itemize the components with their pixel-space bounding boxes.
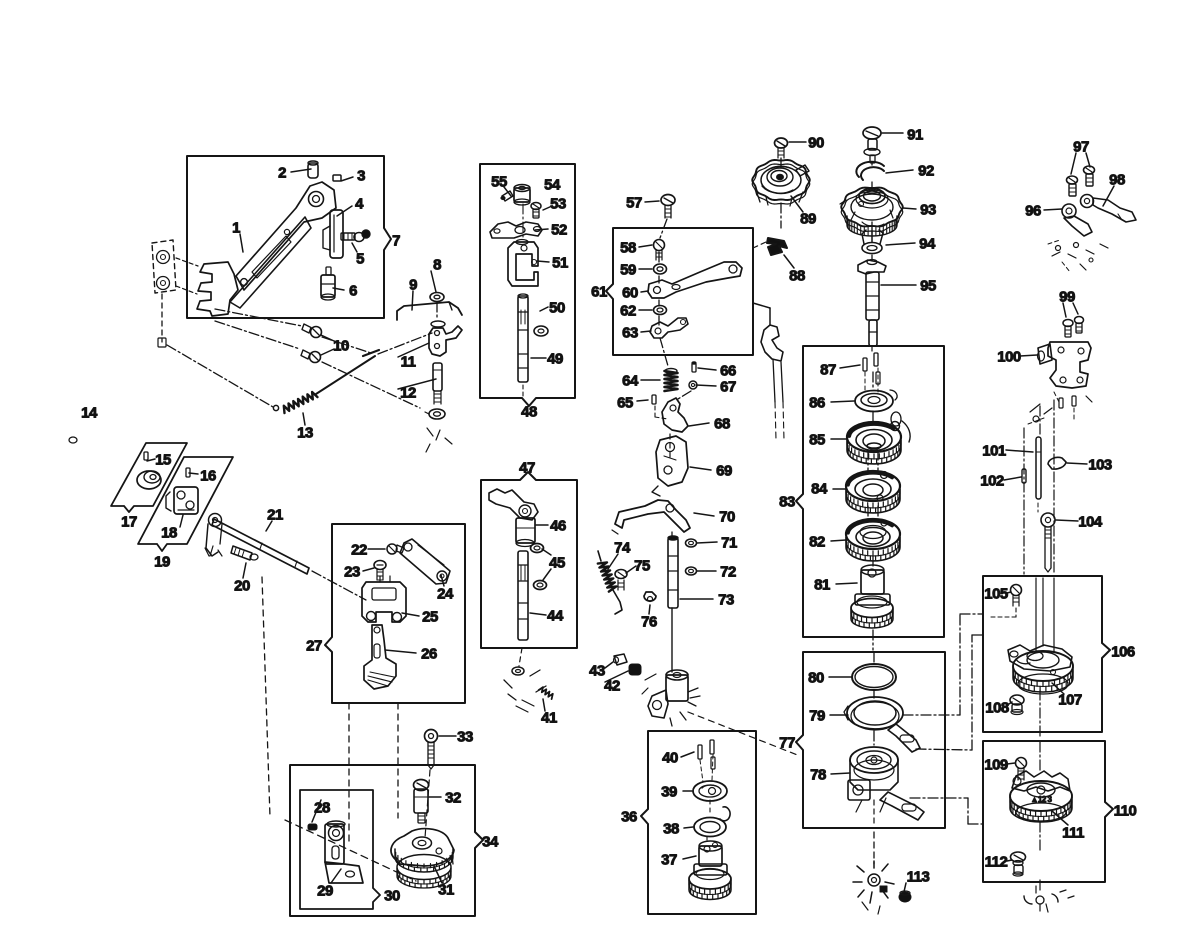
leader line 98 [1007,860,1012,861]
leader line 47 [639,268,652,270]
debris 96 [1048,240,1060,244]
box group 36 [641,731,756,914]
screw 104 [1041,513,1055,527]
leader line 86 [1063,303,1066,317]
pin 28 [308,824,317,830]
bracket 100 [1048,342,1091,388]
box group 61 [606,228,753,355]
cone 81 [861,570,884,594]
svg-text:50: 50 [549,300,565,317]
svg-text:13: 13 [297,425,313,442]
axis 77 [873,652,875,662]
svg-text:78: 78 [810,767,826,784]
leader line 63 [649,605,650,614]
box group 83 [796,346,944,637]
gear 85 [847,422,901,452]
leader line 65 [791,196,803,212]
axis 70-73 [669,434,671,460]
part 26 foot [364,625,396,689]
part 6 cylinder [321,275,335,297]
svg-text:44: 44 [547,608,564,625]
svg-text:29: 29 [317,883,333,900]
spring 13 [273,405,278,410]
leader line 69 [886,243,915,245]
axis 95 [871,162,873,165]
cam 39 [693,781,727,801]
washer 62 [654,306,667,315]
leader line 43 [543,206,552,210]
leader line 4 [333,288,344,290]
oring 80 [852,664,896,690]
leader line 51 [641,379,660,381]
pin 66 [692,363,696,372]
bracket 94 [862,243,882,254]
gear 82 [846,519,900,549]
svg-text:22: 22 [351,542,367,559]
leader line 70 [881,284,916,286]
nut below 12 [429,409,445,419]
svg-text:100: 100 [997,349,1021,366]
box group 106 [983,576,1110,732]
svg-text:8: 8 [433,257,441,274]
shaft 73 [668,538,678,608]
leader line 7 [412,291,413,310]
svg-text:96: 96 [1025,203,1041,220]
dashed verticals to 34 [348,703,350,845]
bolt 91 [863,127,881,139]
svg-text:16: 16 [200,468,216,485]
leader line 91 [1067,463,1087,464]
leader line 96 [1007,763,1015,764]
svg-text:43: 43 [589,663,605,680]
svg-text:10: 10 [333,338,349,355]
dash 67-68 [678,391,691,399]
screw 108 [1010,695,1024,705]
svg-text:82: 82 [809,534,825,551]
below 47 bits [519,648,522,666]
svg-text:11: 11 [401,354,416,371]
axis 48 [522,204,524,240]
svg-text:72: 72 [720,564,736,581]
svg-text:49: 49 [547,351,563,368]
svg-text:91: 91 [907,127,923,144]
bracket 25 [362,582,406,622]
spring 74 [598,551,601,561]
assembly 41-42 [666,670,688,680]
svg-text:4: 4 [355,196,364,213]
svg-text:94: 94 [919,236,936,253]
screw 57 [661,195,675,206]
leader line 40 [540,307,548,311]
screw 10 a [311,327,322,338]
leader line 26 [429,796,441,798]
svg-text:51: 51 [552,255,568,272]
nut 67 [689,381,697,389]
screw 23 [374,561,386,570]
dash 65 [654,406,656,417]
ring 38 [694,818,726,837]
part 4 plate [330,210,343,258]
leader line 52 [637,400,648,401]
dashed drop line [161,294,163,342]
screws 97 [1067,176,1078,184]
part 18 block [174,487,198,514]
part 12 rod [433,363,442,391]
part 15 bushing [137,471,161,489]
screw 90 [775,138,788,148]
link 24 [400,539,450,584]
part 5 bolt [354,233,364,242]
leader line 1 [341,177,353,181]
svg-text:62: 62 [620,303,636,320]
leader line 79 [830,714,848,716]
box group 7 [187,156,391,318]
part 42 dark [629,664,641,675]
leader line 45 [645,201,659,202]
spring 64 [665,371,678,391]
pin 102 [1022,469,1026,483]
svg-text:65: 65 [617,395,633,412]
star 113 [868,874,880,886]
lever 60 [648,262,742,298]
svg-text:79: 79 [809,708,825,725]
connector A2 [916,749,972,750]
clip 88 [767,238,787,255]
axis 33 [425,770,430,838]
leader line 39 [531,357,546,359]
bracket 29 [325,824,344,864]
svg-text:93: 93 [920,202,936,219]
pin 65 [652,395,656,404]
part 20 stub [231,546,252,560]
axis 57 [660,219,667,238]
svg-text:88: 88 [789,268,805,285]
line 73 to 42 [671,608,673,672]
leader line 37 [542,549,551,555]
part 11 clamp [429,326,462,356]
svg-text:40: 40 [662,750,678,767]
svg-text:47: 47 [519,460,535,477]
hook 68 [662,398,688,432]
leader line 74 [831,438,846,440]
svg-text:73: 73 [718,592,734,609]
verticals right [1023,428,1025,574]
nut 59 [654,264,667,274]
svg-text:68: 68 [714,416,730,433]
svg-text:63: 63 [622,325,638,342]
dash-dot L4 [167,345,273,407]
leader line 56 [690,467,711,470]
lever 52 [490,222,542,238]
svg-text:20: 20 [234,578,250,595]
leader line 2 [337,206,352,216]
leader line 23 [312,800,321,822]
gear 84 [846,471,900,501]
box group 77 [796,652,945,828]
leader line 81 [903,883,906,896]
svg-text:112: 112 [985,854,1008,871]
ring 79 [847,697,903,729]
leader line 24 [331,869,341,883]
bracket 51 [508,242,538,286]
leader line 31 [683,856,696,859]
leader line 75 [833,488,846,490]
gear 93 [841,188,903,227]
bracket at rod [209,514,222,527]
leader line 76 [831,540,846,541]
svg-text:54: 54 [544,177,561,194]
leader line 11 [398,379,436,389]
screw 75 [615,570,627,579]
svg-text:90: 90 [808,135,824,152]
gear 31 [391,829,454,866]
svg-text:23: 23 [344,564,360,581]
svg-text:64: 64 [622,373,639,390]
leader line 35 [530,613,546,615]
svg-text:19: 19 [154,554,170,571]
leader line 64 [789,141,806,143]
clip 92 [856,162,884,180]
s-bracket right of 61 [753,303,770,308]
svg-text:17: 17 [121,514,137,531]
svg-text:67: 67 [720,379,736,396]
dash-dot L2 [215,321,300,349]
leader line 9 [321,349,334,355]
svg-text:76: 76 [641,614,657,631]
dashed vert from 21 [262,577,270,817]
leader line 10 [398,343,429,357]
leader line 30 [684,827,693,828]
leader line 41 [537,261,549,262]
rod 21 [212,519,309,574]
svg-text:7: 7 [392,233,400,250]
needle 101 [1036,437,1041,499]
axis 36 [709,800,711,816]
svg-text:46: 46 [550,518,566,535]
part 16 pin [186,468,190,477]
dash to 77 [688,712,800,756]
svg-text:26: 26 [421,646,437,663]
leader line 90 [1004,477,1021,480]
diag dash 34 [285,820,416,881]
dash-dot 21 axis [312,571,366,600]
svg-text:2: 2 [278,165,286,182]
screw 10 b [310,352,321,363]
leader line 92 [1056,520,1078,521]
svg-text:38: 38 [663,821,679,838]
leader line 19 [363,568,374,571]
leader line 71 [784,255,794,268]
lever 63 [650,318,688,338]
connector B1 [910,797,968,799]
axis 83 [872,372,874,390]
leader line 95 [1052,683,1064,694]
screw 53 [531,203,541,210]
svg-text:25: 25 [422,609,438,626]
leader line 87 [1073,303,1078,314]
nut 71 [686,539,697,547]
leader line 27 [439,735,456,737]
svg-text:110: 110 [1114,803,1137,820]
leader line 94 [1009,702,1012,704]
leader line 50 [641,331,651,332]
svg-text:113: 113 [907,869,930,886]
svg-text:106: 106 [1111,644,1135,661]
leader line 28 [681,752,694,757]
svg-text:41: 41 [541,710,557,727]
clip 76 [644,592,656,601]
leader line 21 [402,613,419,616]
svg-text:53: 53 [550,196,566,213]
leader line 42 [535,229,548,230]
svg-text:37: 37 [661,852,677,869]
lever 46 [489,489,538,520]
leader line 67 [886,170,913,173]
svg-text:107: 107 [1058,692,1082,709]
screw 22 [387,544,397,554]
shaft 44 [518,551,528,640]
leader line 58 [697,542,717,543]
svg-text:1: 1 [232,220,240,237]
ring 86 [855,391,893,412]
leader line 53 [698,368,716,370]
leader line 73 [831,401,854,402]
leader line 93 [1007,592,1011,593]
leader line 60 [680,598,713,600]
box group 34 [290,765,483,916]
svg-text:102: 102 [980,473,1004,490]
leader line 3 [352,243,357,252]
leader line 59 [697,570,716,572]
svg-text:15: 15 [155,452,171,469]
leader line 12 [303,413,305,425]
verticals 106 [1035,578,1037,650]
leader line 0 [291,169,311,172]
svg-text:69: 69 [716,463,732,480]
arm 70 [615,500,690,532]
leader line 61 [608,554,618,569]
svg-text:80: 80 [808,670,824,687]
part 43 [614,654,627,665]
leader line 20 [441,575,444,586]
washer 8 [430,293,444,302]
assembly 78 [850,747,898,773]
svg-text:60: 60 [622,285,638,302]
svg-text:57: 57 [626,195,642,212]
lever 98 [1081,195,1094,208]
leader line 66 [882,132,903,134]
leader line 8 [321,335,334,341]
tick marks 19 [205,546,222,556]
rings 45 [531,544,544,553]
leader line 32 [543,699,545,711]
svg-text:59: 59 [620,262,636,279]
parallelogram 17 [111,443,187,512]
screw 112 [1011,852,1026,862]
leader line 77 [836,583,857,584]
leader line 89 [1006,450,1033,452]
svg-text:87: 87 [820,362,836,379]
leader line 6 [431,271,436,292]
parallelogram 19 [138,457,233,551]
leader line 80 [831,773,850,774]
nut 72 [686,567,697,575]
lever 96 [1062,204,1076,218]
leader line 84 [1086,153,1090,167]
nut 50 [534,326,548,336]
svg-text:109: 109 [984,757,1008,774]
axis 89 [780,158,782,168]
leader line 55 [689,423,709,426]
svg-text:111: 111 [1062,825,1084,842]
svg-text:101: 101 [982,443,1006,460]
svg-text:84: 84 [811,481,828,498]
svg-text:71: 71 [721,535,737,552]
svg-text:28: 28 [314,800,330,817]
svg-text:33: 33 [457,729,473,746]
leader line 83 [1071,153,1076,174]
svg-text:21: 21 [267,507,283,524]
svg-text:14: 14 [81,405,98,422]
screws 99 [1063,320,1073,327]
svg-text:89: 89 [800,211,816,228]
screw 109 [1016,758,1027,769]
leader line 54 [696,385,716,386]
leader line 97 [1052,811,1068,825]
svg-text:85: 85 [809,432,825,449]
svg-text:81: 81 [814,577,830,594]
leader line 36 [543,569,551,580]
debris under 12 [426,428,452,452]
leader line 22 [385,650,416,653]
dash 105 [1015,608,1017,617]
leader line 34 [605,662,613,668]
box group 110 [983,741,1113,882]
svg-text:86: 86 [809,395,825,412]
gear 111 [1012,771,1070,791]
box group 48 [480,164,575,406]
pins 87 [863,358,867,371]
leader line 25 [434,866,442,883]
hook 103 [1048,457,1066,469]
bolt 113 [899,892,911,902]
axis in 61 [658,252,660,264]
part 15 pin [144,452,148,460]
svg-text:104: 104 [1078,514,1103,531]
svg-text:61: 61 [591,284,607,301]
svg-text:66: 66 [720,363,736,380]
leader line 44 [504,187,511,196]
svg-text:30: 30 [384,888,400,905]
screw 105 [1011,585,1022,596]
leader line 88 [1020,355,1037,356]
leader line 85 [1103,186,1114,206]
svg-text:36: 36 [621,809,637,826]
part 54 [514,188,530,202]
svg-text:31: 31 [438,882,454,899]
leader line 78 [829,676,852,678]
leader line 18 [368,548,385,550]
connector A1 [903,714,960,716]
svg-text:24: 24 [437,586,454,603]
part 1 arm [197,262,238,316]
pin 55 [502,191,513,201]
svg-text:39: 39 [661,784,677,801]
svg-text:105: 105 [984,586,1008,603]
leader line 57 [694,513,714,516]
shaft 49 [518,296,528,382]
box group 30 [300,790,380,909]
